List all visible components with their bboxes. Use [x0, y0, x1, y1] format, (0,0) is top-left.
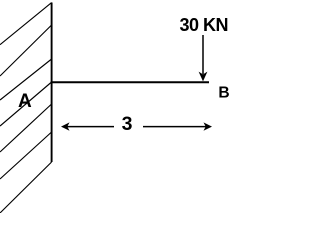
dimension left arrow head: [61, 122, 70, 130]
svg-text:3: 3: [122, 113, 133, 135]
svg-text:30 KN: 30 KN: [180, 15, 229, 35]
hatch line 5: [0, 104, 52, 152]
dimension left arrow stem: [66, 126, 114, 128]
wall support vertical line: [51, 3, 53, 163]
hatch line 2: [0, 25, 52, 76]
svg-text:A: A: [18, 91, 32, 112]
beam A-B horizontal line: [51, 81, 209, 83]
force arrow 30 KN stem: [202, 35, 204, 74]
hatch line 3: [0, 59, 52, 100]
hatch line 1: [0, 3, 52, 45]
force arrow 30 KN head: [199, 72, 208, 82]
hatch line 6: [0, 132, 52, 179]
hatch line 4: [0, 82, 52, 126]
hatch line 7: [0, 162, 52, 213]
dimension right arrow stem: [143, 126, 207, 128]
dimension right arrow head: [204, 122, 213, 130]
svg-text:B: B: [218, 85, 229, 102]
